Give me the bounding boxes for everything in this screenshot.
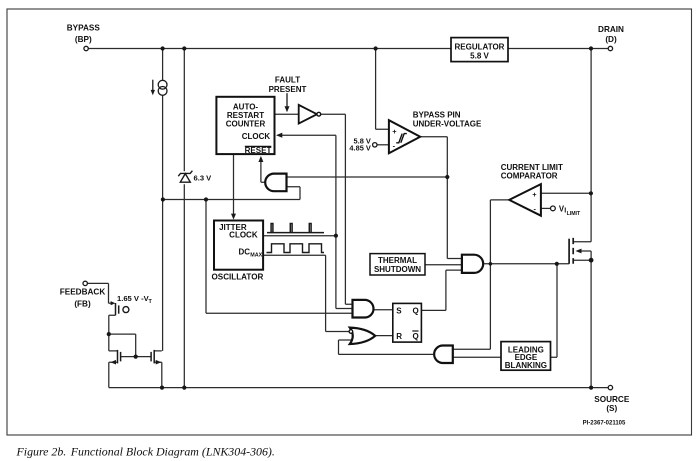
svg-text:4.85 V: 4.85 V: [349, 144, 370, 153]
hysteresis glyph U3: [396, 134, 407, 143]
OR gate U8 reset-side: [350, 328, 375, 344]
inverter U2: [299, 105, 317, 124]
svg-text:SOURCE: SOURCE: [594, 395, 630, 404]
svg-text:FAULT: FAULT: [275, 75, 300, 84]
wire current limit minus stub: [541, 207, 550, 209]
wire FB terminal lead: [87, 283, 108, 303]
arrow reset input: [258, 156, 263, 162]
svg-text:COUNTER: COUNTER: [226, 119, 266, 128]
svg-text:REGULATOR: REGULATOR: [455, 42, 505, 51]
wire bottom source rail: [109, 387, 609, 389]
svg-text:SHUTDOWN: SHUTDOWN: [374, 265, 421, 274]
AND gate U10 drive: [462, 255, 483, 273]
fet Q4 mirror right: [151, 350, 154, 364]
svg-text:Q: Q: [413, 332, 419, 341]
terminal BP: [84, 46, 88, 50]
svg-text:DC: DC: [238, 248, 250, 257]
wire current limit comparator output down: [490, 200, 509, 349]
wire LEB AND bottom input to LEB box: [453, 356, 501, 358]
wire UV comparator minus stub: [377, 144, 389, 146]
fet Q3 mirror left: [118, 350, 121, 364]
wire inverter output net to set-AND: [321, 114, 353, 304]
svg-text:MAX: MAX: [250, 253, 262, 259]
svg-text:BLANKING: BLANKING: [505, 361, 547, 370]
wire counter to oscillator jitter: [233, 154, 235, 216]
wire mirror left drain: [109, 334, 118, 351]
svg-text:(D): (D): [605, 35, 617, 44]
svg-text:PI-2367-021105: PI-2367-021105: [583, 421, 626, 427]
terminal S: [608, 385, 612, 389]
wire LEB AND output to OR input: [339, 340, 434, 354]
svg-text:CLOCK: CLOCK: [242, 132, 271, 141]
svg-text:1.65 V -V: 1.65 V -V: [117, 294, 150, 303]
svg-text:DRAIN: DRAIN: [598, 25, 624, 34]
wire mirror right source: [154, 362, 162, 387]
wire LEB box to gate node: [551, 264, 558, 357]
wire reset-AND top input to UV net: [287, 176, 448, 178]
svg-text:+: +: [392, 127, 397, 136]
wire reset AND lower input riser: [287, 187, 301, 200]
arrow fault present: [286, 93, 288, 107]
svg-text:R: R: [396, 332, 402, 341]
wire reset arrow riser: [261, 159, 265, 183]
svg-text:CLOCK: CLOCK: [229, 231, 258, 240]
svg-text:OSCILLATOR: OSCILLATOR: [212, 272, 264, 281]
svg-text:5.8 V: 5.8 V: [470, 52, 489, 61]
wire OR output to R: [375, 335, 393, 337]
svg-text:S: S: [396, 306, 402, 315]
wire drive-AND output to gate: [484, 263, 569, 265]
latch U9 S-R: [393, 303, 422, 342]
comparator U3 bypass pin under-voltage: [389, 120, 420, 153]
AND gate U7 set: [353, 300, 374, 318]
wire current-source branch: [162, 49, 164, 351]
wire mirror left source: [109, 362, 118, 387]
svg-text:RESET: RESET: [245, 146, 272, 155]
wire zener branch: [183, 49, 185, 388]
current source I1: [153, 80, 167, 96]
AND gate U12 leading-edge (points left): [434, 346, 453, 364]
box leading edge blanking U13: [501, 342, 551, 371]
svg-text:LIMIT: LIMIT: [567, 211, 581, 217]
box thermal shutdown U6: [370, 254, 425, 275]
wire latch Q to drive-AND: [421, 270, 462, 310]
wire FB fet drain stub: [109, 302, 112, 304]
box auto-restart counter U1: [216, 97, 274, 154]
wire clock net: [263, 135, 352, 308]
svg-text:6.3 V: 6.3 V: [194, 174, 213, 183]
comparator U11 current limit (points left): [509, 184, 541, 216]
wire BP top rail: [88, 48, 591, 50]
wire UV comparator plus input from rail: [376, 49, 389, 130]
svg-text:Figure 2b.Functional Block Dia: Figure 2b.Functional Block Diagram (LNK3…: [16, 445, 275, 459]
terminal D: [608, 46, 612, 50]
svg-text:BYPASS: BYPASS: [67, 24, 101, 33]
box regulator U14: [451, 38, 508, 62]
wire mosfet drain stub: [573, 241, 591, 243]
wire mosfet source stub: [573, 259, 591, 261]
wire source drop to rail: [590, 260, 592, 387]
svg-text:THERMAL: THERMAL: [378, 256, 417, 265]
svg-text:PRESENT: PRESENT: [269, 85, 307, 94]
wire counter output to inverter: [275, 113, 299, 115]
mosfet Q1 power: [569, 238, 573, 264]
svg-text:(S): (S): [606, 404, 617, 413]
terminal FB: [83, 281, 87, 285]
wire thermal shutdown to drive-AND: [425, 264, 462, 266]
arrow jitter into oscillator: [231, 214, 236, 220]
svg-text:+: +: [532, 190, 537, 199]
wire mirror right drain: [154, 350, 162, 352]
arrow clock input: [276, 133, 282, 138]
svg-text:T: T: [149, 299, 153, 305]
wire dcmax net to OR input: [263, 255, 348, 331]
wire drain to D terminal: [591, 48, 608, 50]
svg-text:(BP): (BP): [75, 35, 92, 44]
wire set-AND output to S: [374, 309, 393, 311]
waveform jitter clock: [267, 224, 324, 233]
box oscillator U4: [214, 221, 263, 270]
wire mosfet body stub: [579, 251, 591, 260]
waveform dcmax: [267, 244, 325, 253]
svg-text:COMPARATOR: COMPARATOR: [501, 172, 558, 181]
svg-text:BYPASS PIN: BYPASS PIN: [413, 110, 461, 119]
svg-text:FEEDBACK: FEEDBACK: [60, 288, 106, 297]
wire UV comparator output down: [420, 137, 462, 259]
zener D1 6.3V: [178, 171, 192, 183]
wire node BP-sense horizontal: [163, 199, 300, 201]
svg-text:(FB): (FB): [74, 300, 91, 309]
fet Q2 feedback p-type: [116, 303, 119, 315]
svg-text:Q: Q: [413, 306, 419, 315]
wire LEB AND top input: [453, 348, 491, 350]
wire drain riser D: [590, 49, 592, 242]
svg-text:UNDER-VOLTAGE: UNDER-VOLTAGE: [413, 119, 482, 128]
wire current limit plus input to drain: [541, 192, 591, 194]
wire FB fet source down: [109, 315, 116, 334]
wire node sense to set-AND: [206, 200, 353, 314]
AND gate U5 reset (points left): [265, 174, 286, 192]
wire mirror gate tie: [109, 334, 151, 357]
